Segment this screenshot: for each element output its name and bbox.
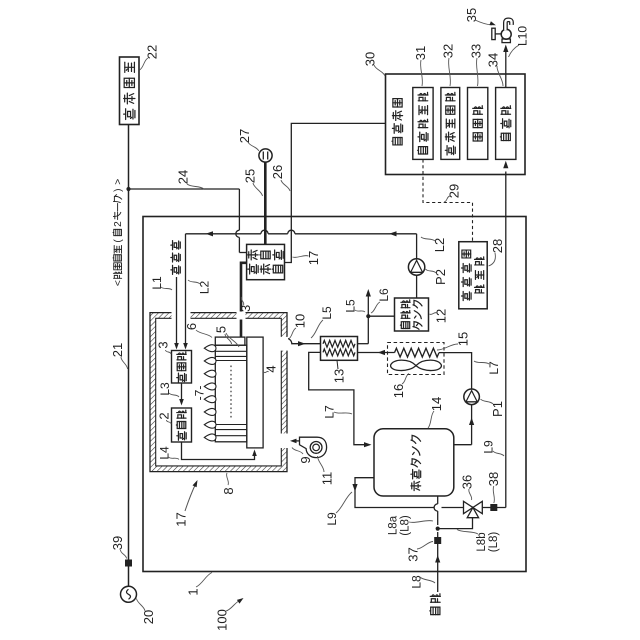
power supply circuit box [247, 244, 285, 279]
svg-text:L7: L7 [487, 361, 501, 375]
svg-text:-7-: -7- [193, 386, 207, 401]
svg-text:>: > [113, 179, 124, 185]
svg-text:27: 27 [237, 129, 252, 143]
line L1 [176, 277, 178, 347]
svg-text:L8b: L8b [476, 532, 488, 551]
node 39 [125, 560, 132, 567]
svg-text:30: 30 [362, 52, 377, 66]
svg-text:24: 24 [175, 170, 190, 184]
wire 26 [285, 123, 386, 262]
svg-text:37: 37 [405, 547, 420, 561]
vaporizer box 3 [172, 351, 192, 384]
svg-text:(L8): (L8) [488, 532, 500, 553]
svg-text:17: 17 [306, 251, 321, 265]
svg-text:4: 4 [263, 365, 278, 372]
svg-text:L5: L5 [320, 306, 334, 320]
svg-text:21: 21 [110, 343, 125, 357]
feed water text [430, 607, 440, 614]
reformer box 2 [172, 408, 192, 442]
svg-text:9: 9 [298, 456, 313, 463]
svg-text:8: 8 [221, 487, 236, 494]
radiator line into 13 [358, 352, 395, 354]
line L8 feed [437, 544, 439, 592]
separator plate 4 [247, 337, 263, 448]
svg-text:20: 20 [141, 610, 156, 624]
svg-text:): ) [113, 188, 124, 191]
line L9 tank out to valve [355, 478, 434, 508]
pipe tank to P1 [471, 405, 473, 445]
svg-text:16: 16 [391, 384, 406, 398]
thick wire 25 [264, 162, 267, 244]
hot water storage tank 14 [374, 429, 454, 496]
line L5 to tank 12, vent L6 [358, 343, 369, 345]
heat exchanger 13 [321, 337, 358, 361]
L8b to valve [438, 518, 473, 529]
heating part box 34 [496, 88, 516, 160]
fan 16 blades [391, 360, 416, 370]
svg-text:17: 17 [173, 512, 188, 526]
line L3 [181, 383, 183, 402]
svg-text:32: 32 [440, 44, 455, 58]
dashed box 15 [388, 343, 445, 375]
svg-text:L9: L9 [325, 512, 339, 526]
burner bar 6 [215, 337, 245, 345]
svg-text:P2: P2 [433, 269, 448, 285]
svg-text:10: 10 [292, 314, 307, 328]
line L7 into tank [309, 352, 367, 444]
pump P1 [464, 389, 480, 405]
line L9 up to heater [505, 172, 507, 508]
flames 7 [204, 345, 216, 352]
svg-text:6: 6 [184, 323, 199, 330]
memory box 33 [468, 88, 488, 160]
plug symbol 27 [259, 149, 272, 162]
power load box 22 [120, 57, 140, 125]
stack 5 [215, 345, 247, 442]
svg-text:(L8): (L8) [399, 515, 411, 536]
svg-text:34: 34 [485, 53, 500, 67]
three-way valve 36 [464, 501, 473, 513]
svg-text:33: 33 [468, 44, 483, 58]
thick wire 23 [241, 263, 247, 337]
svg-text:L10: L10 [516, 26, 530, 46]
svg-text:5: 5 [213, 326, 228, 333]
blower 11 [300, 437, 327, 457]
junction dot node [126, 187, 130, 191]
dashed line 29 [423, 159, 473, 241]
line L2 [186, 233, 261, 235]
line L10 heater to faucet [505, 48, 507, 88]
svg-text:L6: L6 [377, 288, 391, 302]
svg-text:26: 26 [270, 165, 285, 179]
svg-text:38: 38 [486, 472, 501, 486]
faucet 35 [501, 29, 511, 39]
svg-text:35: 35 [464, 8, 479, 22]
svg-text:L2: L2 [198, 281, 212, 295]
L8a to tank bottom [437, 532, 439, 537]
svg-text:22: 22 [144, 45, 159, 59]
heating device box 30 [386, 74, 526, 175]
line L4 [182, 442, 255, 460]
svg-text:13: 13 [331, 369, 346, 383]
pipe radiator to P1 [439, 353, 472, 390]
svg-text:100: 100 [214, 609, 229, 631]
svg-text:28: 28 [490, 239, 505, 253]
svg-text:2: 2 [156, 412, 171, 419]
svg-text:3: 3 [155, 341, 170, 348]
duct from module opening [284, 338, 320, 344]
svg-text:25: 25 [242, 169, 257, 183]
hot module hatched wall 8 [150, 312, 288, 472]
node 38 [482, 507, 506, 509]
wire 24 [129, 188, 240, 190]
radiator zigzag [395, 348, 440, 357]
svg-text:L8: L8 [410, 575, 424, 589]
svg-text:36: 36 [459, 475, 474, 489]
recovery water tank 12 [395, 298, 429, 331]
svg-text:14: 14 [429, 397, 444, 411]
pump P2 [408, 259, 424, 275]
svg-text:L8a: L8a [387, 515, 399, 535]
line L2 down [185, 234, 187, 347]
wire: load to AC source 20 [128, 125, 130, 587]
input receive box 32 [441, 88, 460, 160]
svg-text:2: 2 [113, 221, 124, 227]
svg-text:1: 1 [185, 588, 200, 595]
fuel cell controller box 28 [459, 242, 487, 309]
svg-text:11: 11 [319, 472, 334, 486]
svg-text:39: 39 [110, 536, 125, 550]
svg-text:31: 31 [413, 46, 428, 60]
system boundary box 1 [143, 217, 526, 572]
raw fuel text [171, 265, 180, 274]
svg-text:(: ( [113, 239, 124, 243]
heater control box 31 [413, 88, 433, 160]
AC source 20 [121, 586, 137, 602]
svg-text:<: < [113, 280, 124, 286]
svg-text:12: 12 [433, 309, 448, 323]
